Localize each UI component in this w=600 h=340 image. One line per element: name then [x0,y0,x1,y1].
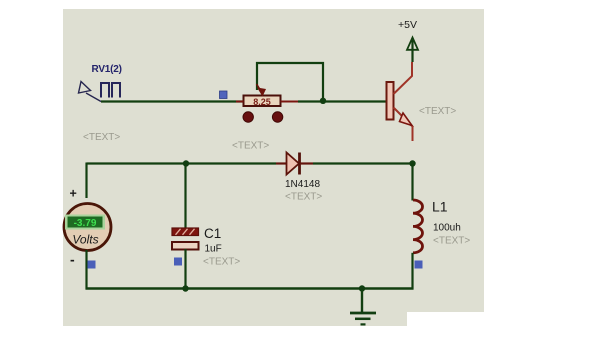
pulse generator RV1(2) arrow symbol [79,82,102,102]
svg-text:Volts: Volts [72,233,98,247]
label <TEXT> below 100uh [433,236,470,247]
svg-text:+: + [70,187,77,201]
label RV1(2) [92,64,122,75]
svg-text:<TEXT>: <TEXT> [203,257,240,268]
schematic background sheet [63,9,484,312]
label <TEXT> below generator [83,132,120,143]
label 1N4148 [285,179,320,190]
label <TEXT> right of transistor [419,106,456,117]
wire: mid horizontal (voltmeter corner to diode) [87,162,277,164]
label <TEXT> below C1 [203,257,240,268]
blue marker square at C1 bottom pin [174,258,182,266]
capacitor C1 bottom plate [172,242,199,250]
wire: voltmeter to bottom rail [85,250,87,290]
svg-text:+5V: +5V [398,19,417,31]
svg-text:<TEXT>: <TEXT> [433,236,470,247]
svg-text:8.25: 8.25 [253,97,271,107]
junction at C1 on rail [182,285,188,291]
ground symbol [350,289,376,325]
svg-text:1N4148: 1N4148 [285,179,320,190]
blue marker square near top wire [220,91,228,99]
potentiometer RV1 body [244,96,281,107]
voltmeter body [64,204,111,251]
junction at C1 tap [183,160,189,166]
label 1uF [205,244,222,255]
wire: pulse generator to potentiometer (top wire) [101,100,244,102]
label <TEXT> above diode [232,141,269,152]
wire: emitter junction down to L1 [411,164,413,201]
wire: diode to emitter junction [313,162,413,164]
svg-text:RV1(2): RV1(2) [92,64,122,75]
wire: L1 bottom to rail corner [411,253,413,290]
junction at wiper loop / base wire [320,98,326,104]
label 100uh [433,223,461,234]
transistor emitter lead with arrow [394,108,413,142]
voltmeter plus sign [70,187,77,201]
blue marker square at L1 bottom pin [415,261,423,269]
label C1 [204,226,221,241]
svg-text:<TEXT>: <TEXT> [285,192,322,203]
power +5V label [398,19,417,31]
svg-text:100uh: 100uh [433,223,461,234]
svg-text:-: - [70,252,75,268]
wire: bottom rail [86,287,414,289]
junction at ground on rail [359,285,365,291]
transistor collector lead [394,62,413,94]
wire: corner down to voltmeter [85,163,87,199]
label L1 [432,199,448,215]
svg-text:L1: L1 [432,199,448,215]
voltmeter minus sign [70,252,75,268]
junction at emitter / diode wire [409,160,415,166]
wire: C1 top lead from mid wire [184,164,186,229]
svg-text:<TEXT>: <TEXT> [419,106,456,117]
svg-text:<TEXT>: <TEXT> [232,141,269,152]
wire: C1 bottom lead to rail [184,249,186,290]
svg-text:1uF: 1uF [205,244,222,255]
potentiometer adjust dots [243,112,283,122]
inductor L1 coil [413,200,423,253]
blue marker square at voltmeter minus pin [88,261,96,269]
pulse generator square-wave glyph [101,83,120,98]
svg-text:<TEXT>: <TEXT> [83,132,120,143]
potentiometer leads [236,101,298,103]
wire: potentiometer wiper loop [257,63,323,101]
power +5V arrow symbol [407,38,418,63]
diode D1 1N4148 [276,153,313,175]
svg-text:-3.79: -3.79 [74,218,97,229]
label <TEXT> below diode [285,192,322,203]
transistor Q1 (NPN) body bar [387,82,394,120]
svg-text:C1: C1 [204,226,221,241]
capacitor C1 top plate (hatched) [172,228,199,236]
wire: potentiometer to transistor base [298,100,387,102]
potentiometer wiper arrow [257,84,267,97]
